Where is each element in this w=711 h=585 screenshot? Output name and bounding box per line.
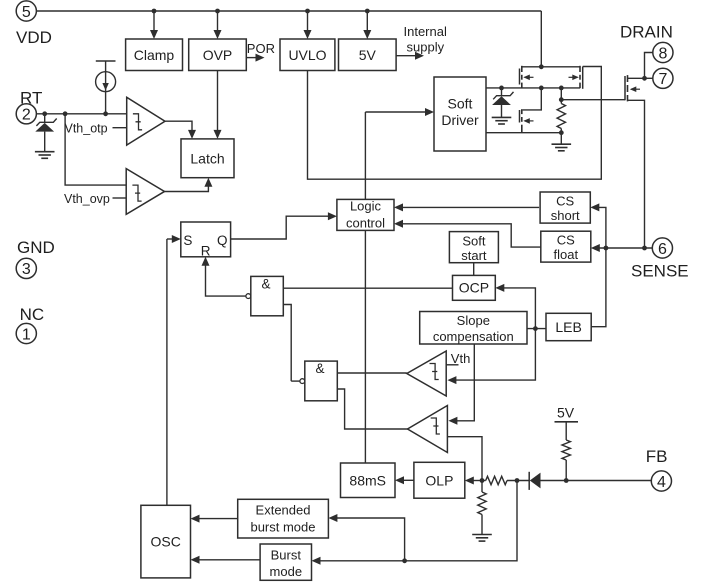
wire logic-to-softdriver riser [364, 112, 366, 463]
svg-text:7: 7 [658, 71, 667, 88]
wire RT to ovp comparator [65, 114, 126, 185]
node mid rail M3 [539, 86, 544, 91]
svg-text:8: 8 [658, 45, 667, 62]
svg-text:Soft: Soft [448, 96, 473, 112]
svg-text:6: 6 [658, 241, 667, 258]
wire VDD top rail [36, 10, 541, 12]
ground driver [552, 143, 572, 145]
svg-text:compensation: compensation [433, 329, 514, 344]
current source I1 [96, 60, 116, 62]
wire OCP to AND1 input [283, 287, 452, 289]
pin 5 (VDD) [16, 1, 36, 21]
wire FB net [541, 480, 652, 482]
gate AND1 [251, 276, 283, 315]
wire M4 drain stub [628, 77, 645, 79]
wire gate node [560, 88, 562, 104]
svg-text:OVP: OVP [203, 47, 233, 63]
block Burst mode [260, 544, 311, 580]
pin 3 (GND) [16, 258, 36, 278]
pin 7 (DRAIN) [653, 68, 673, 88]
wire AND2 output stub [291, 380, 300, 382]
svg-text:4: 4 [657, 474, 666, 491]
block Clamp [126, 39, 183, 71]
svg-text:2: 2 [22, 107, 31, 124]
wire Soft start to OCP [473, 263, 475, 276]
wire node to PWM comparator input [452, 329, 536, 381]
block UVLO [280, 39, 335, 71]
wire CS short to Logic control [398, 206, 539, 208]
wire FB to burst mode [316, 481, 517, 561]
node FB divider [480, 478, 485, 483]
wire LEB node to OCP [500, 288, 536, 329]
svg-text:OLP: OLP [425, 472, 453, 488]
comparator U_olp [408, 406, 448, 453]
transistor M2 high-side mirrored [582, 67, 584, 89]
svg-text:Clamp: Clamp [134, 47, 175, 63]
wire Q output to Logic control [231, 216, 332, 239]
pin 6 (SENSE) [652, 238, 672, 258]
block CS short [540, 192, 590, 223]
block Soft start [449, 232, 498, 263]
node VDD driver rail [539, 64, 544, 69]
wire olp comp lower input from FB [447, 437, 482, 481]
svg-text:short: short [551, 208, 580, 223]
svg-text:SENSE: SENSE [631, 262, 689, 281]
pin 2 (RT) [16, 104, 36, 124]
wire pin7 to drain node [645, 77, 654, 79]
wire OSC to S input riser [166, 239, 168, 505]
svg-text:Vth_ovp: Vth_ovp [64, 192, 110, 206]
svg-text:Extended: Extended [256, 503, 311, 518]
wire internal supply arrow [396, 55, 416, 57]
node VDD-5V [365, 9, 370, 14]
block Extended burst mode [238, 499, 329, 538]
node mid rail resistor [559, 86, 564, 91]
node burst-EBM [402, 558, 407, 563]
svg-text:Vth: Vth [451, 351, 471, 366]
block Latch [181, 139, 234, 178]
wire otp comparator output to Latch [165, 121, 192, 134]
svg-text:88mS: 88mS [349, 472, 386, 488]
block Logic control [337, 199, 394, 230]
wire FB node to OLP [469, 480, 482, 482]
resistor gate pulldown [557, 104, 565, 129]
node RT-current source [103, 111, 108, 116]
wire OVP to Latch [217, 71, 219, 135]
wire to extended burst mode [333, 518, 405, 561]
svg-text:Latch: Latch [190, 150, 224, 166]
ground FB [472, 534, 492, 536]
wire LEB to sense net [591, 207, 606, 326]
wire UVLO to driver path [308, 67, 602, 180]
block CS float [541, 231, 591, 262]
wire slope comp to LEB [527, 328, 546, 330]
wire RT net [36, 113, 127, 115]
svg-text:&: & [261, 276, 270, 291]
node sense-FET source [642, 246, 647, 251]
svg-text:Soft: Soft [462, 233, 486, 248]
node VDD-Clamp [152, 9, 157, 14]
svg-text:UVLO: UVLO [288, 47, 326, 63]
wire S input [167, 238, 177, 240]
wire driver top rail [522, 66, 580, 68]
node resistor bottom [559, 130, 564, 135]
wire EBM to OSC [195, 518, 238, 520]
block 88mS [341, 463, 396, 498]
transistor M3 low-side [519, 110, 521, 123]
svg-text:OSC: OSC [151, 534, 181, 550]
svg-text:control: control [346, 215, 385, 230]
wire soft driver input [365, 111, 429, 113]
block Soft Driver [434, 77, 486, 151]
svg-text:Internal: Internal [404, 24, 447, 39]
diode FB [528, 472, 530, 490]
svg-text:start: start [461, 248, 487, 263]
gate AND2 [305, 361, 338, 401]
svg-text:3: 3 [22, 261, 31, 278]
wire AND2 output to AND1 input [283, 305, 291, 382]
svg-text:5V: 5V [359, 47, 377, 63]
zener clamp gate [499, 86, 504, 91]
wire ovp comparator output to Latch [165, 182, 209, 191]
node slope-LEB [533, 326, 538, 331]
wire UVLO feed [307, 11, 309, 31]
svg-text:LEB: LEB [555, 319, 581, 335]
block OSC [141, 505, 191, 578]
wire Burst mode to OSC [195, 559, 260, 561]
svg-text:CS: CS [557, 233, 575, 248]
flip-flop SR [181, 222, 231, 257]
wire slope comp to OLP comparator [453, 344, 474, 421]
node FB 5V [564, 478, 569, 483]
svg-text:1: 1 [22, 326, 31, 343]
pin 4 (FB) [651, 471, 671, 491]
wire sense net to CS float [595, 247, 653, 249]
svg-text:POR: POR [247, 41, 275, 56]
wire driver mid rail (gate drive) [486, 87, 580, 89]
svg-text:Logic: Logic [350, 199, 382, 214]
wire M4 source to sense [628, 100, 645, 248]
wire PWM comparator to AND2 [337, 372, 407, 374]
wire driver bottom rail [486, 132, 561, 134]
pin 1 (NC) [16, 323, 36, 343]
svg-text:Q: Q [217, 233, 228, 248]
wire pin8 to pin7 [645, 53, 654, 79]
node drain [642, 76, 647, 81]
wire OLP comparator to AND2 [337, 389, 407, 429]
wire OVP feed [217, 11, 219, 31]
svg-text:S: S [183, 233, 192, 248]
svg-text:Driver: Driver [441, 112, 479, 128]
wire POR output arrow [246, 57, 257, 59]
node gate line [559, 97, 564, 102]
svg-text:R: R [201, 243, 211, 258]
transistor M1 high-side [519, 69, 521, 85]
wire VDD drop to driver stage [540, 11, 542, 67]
svg-text:5: 5 [22, 4, 31, 21]
node sense-LEB riser [604, 246, 609, 251]
wire resistor bottom to ground [560, 133, 562, 145]
ground RT zener [35, 151, 55, 153]
pin 8 (DRAIN) [653, 42, 673, 62]
svg-text:Burst: Burst [271, 547, 302, 562]
block LEB [546, 313, 591, 340]
svg-text:Slope: Slope [457, 313, 490, 328]
svg-text:mode: mode [270, 564, 303, 579]
node VDD-OVP [215, 9, 220, 14]
wire M3 drain to mid rail [523, 88, 542, 110]
wire Vth_ovp stub [113, 197, 127, 199]
block Slope compensation [420, 312, 527, 345]
comparator U_pwm [407, 351, 446, 396]
wire Clamp feed [153, 11, 155, 31]
node FB burst [515, 478, 520, 483]
svg-text:burst mode: burst mode [250, 519, 315, 534]
block OLP [414, 462, 465, 498]
node RT-ovp branch [63, 111, 68, 116]
svg-text:GND: GND [17, 238, 55, 257]
block OVP [189, 39, 247, 71]
svg-text:OCP: OCP [459, 279, 489, 295]
svg-text:float: float [554, 247, 579, 262]
svg-text:FB: FB [646, 447, 668, 466]
wire CS float to Logic control [398, 224, 541, 247]
comparator U_ovp [126, 169, 164, 215]
node VDD-UVLO [305, 9, 310, 14]
block 5V regulator [339, 39, 397, 71]
wire Vth_otp stub [113, 127, 127, 129]
svg-text:NC: NC [20, 305, 45, 324]
wire OLP to 88mS [400, 479, 414, 481]
wire AND1 output to R input [206, 261, 246, 296]
wire 5V feed [366, 11, 368, 31]
comparator U_otp [127, 97, 165, 145]
wire Vth stub [446, 364, 458, 366]
svg-text:Vth_otp: Vth_otp [65, 121, 108, 135]
svg-text:5V: 5V [557, 405, 575, 421]
svg-text:supply: supply [407, 40, 445, 55]
svg-text:CS: CS [556, 193, 574, 208]
resistor FB lower [481, 481, 483, 493]
svg-text:VDD: VDD [16, 28, 52, 47]
transistor M4 power MOSFET [624, 76, 626, 100]
ground gate zener [492, 116, 512, 118]
wire gate line to power FET [561, 99, 625, 101]
node RT-zener [42, 111, 47, 116]
resistor FB series [482, 480, 486, 482]
svg-text:&: & [315, 361, 324, 376]
svg-text:DRAIN: DRAIN [620, 23, 673, 42]
block OCP [453, 275, 496, 300]
zener diode RT [44, 114, 46, 123]
